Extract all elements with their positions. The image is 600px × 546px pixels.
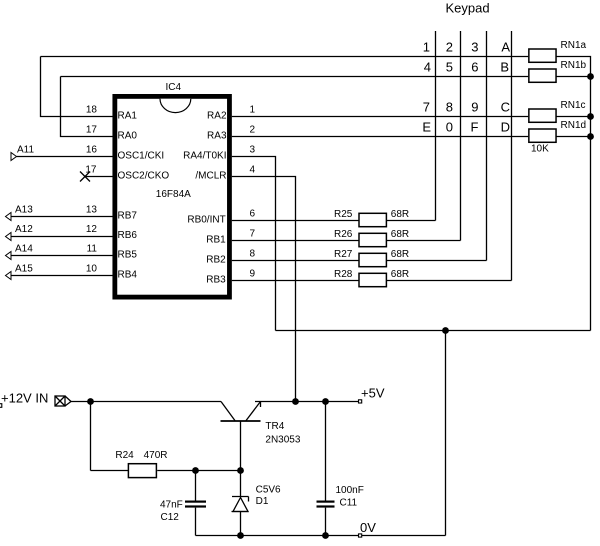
svg-text:RN1c: RN1c — [561, 100, 586, 111]
svg-text:D1: D1 — [256, 496, 269, 507]
svg-text:7: 7 — [423, 100, 430, 115]
svg-text:12: 12 — [86, 224, 98, 235]
svg-text:D: D — [501, 120, 510, 135]
svg-text:A14: A14 — [15, 244, 33, 255]
svg-text:RB7: RB7 — [118, 210, 138, 221]
svg-text:C: C — [501, 100, 510, 115]
svg-text:68R: 68R — [391, 269, 409, 280]
svg-text:68R: 68R — [391, 249, 409, 260]
svg-text:R26: R26 — [334, 229, 353, 240]
svg-text:A: A — [501, 40, 510, 55]
svg-text:RN1d: RN1d — [561, 120, 587, 131]
svg-text:5: 5 — [446, 60, 453, 75]
svg-text:A13: A13 — [15, 205, 33, 216]
svg-text:C11: C11 — [340, 498, 358, 509]
svg-text:4: 4 — [424, 60, 431, 75]
svg-text:RB6: RB6 — [118, 230, 138, 241]
svg-text:RN1a: RN1a — [561, 40, 587, 51]
svg-text:RB5: RB5 — [118, 249, 138, 260]
svg-text:2: 2 — [446, 40, 453, 55]
svg-text:+5V: +5V — [361, 386, 385, 401]
svg-text:16F84A: 16F84A — [156, 189, 191, 200]
svg-text:68R: 68R — [391, 209, 409, 220]
svg-text:RA0: RA0 — [118, 130, 138, 141]
svg-text:A12: A12 — [15, 224, 33, 235]
svg-text:6: 6 — [471, 60, 478, 75]
svg-text:TR4: TR4 — [265, 421, 284, 432]
svg-text:18: 18 — [86, 105, 98, 116]
svg-text:9: 9 — [471, 100, 478, 115]
svg-text:RN1b: RN1b — [561, 60, 587, 71]
svg-text:2: 2 — [250, 125, 256, 136]
svg-text:RB2: RB2 — [206, 255, 226, 266]
svg-text:C12: C12 — [161, 512, 180, 523]
svg-text:A15: A15 — [15, 264, 33, 275]
svg-text:0: 0 — [446, 120, 453, 135]
svg-text:B: B — [500, 60, 509, 75]
svg-text:RA3: RA3 — [207, 130, 227, 141]
svg-text:R25: R25 — [334, 209, 353, 220]
svg-text:E: E — [422, 120, 431, 135]
svg-text:C5V6: C5V6 — [256, 485, 281, 496]
svg-text:68R: 68R — [391, 229, 409, 240]
svg-text:16: 16 — [86, 145, 98, 156]
svg-text:1: 1 — [250, 105, 256, 116]
svg-text:R28: R28 — [334, 269, 353, 280]
svg-text:3: 3 — [250, 145, 256, 156]
svg-text:RA2: RA2 — [207, 110, 227, 121]
svg-text:1: 1 — [423, 40, 430, 55]
svg-text:4: 4 — [250, 165, 256, 176]
svg-text:47nF: 47nF — [160, 500, 183, 511]
svg-text:6: 6 — [250, 209, 256, 220]
svg-text:9: 9 — [250, 269, 256, 280]
svg-text:470R: 470R — [144, 450, 168, 461]
svg-text:0V: 0V — [360, 520, 376, 535]
svg-text:RB3: RB3 — [206, 275, 226, 286]
svg-text:IC4: IC4 — [166, 82, 182, 93]
svg-text:7: 7 — [250, 229, 256, 240]
svg-text:OSC2/CKO: OSC2/CKO — [118, 170, 170, 181]
svg-text:17: 17 — [85, 165, 97, 176]
svg-text:/MCLR: /MCLR — [195, 170, 226, 181]
svg-text:R24: R24 — [115, 450, 134, 461]
svg-text:13: 13 — [86, 205, 98, 216]
svg-text:10: 10 — [86, 264, 98, 275]
svg-text:OSC1/CKI: OSC1/CKI — [118, 150, 165, 161]
svg-text:RA4/T0KI: RA4/T0KI — [183, 150, 226, 161]
svg-text:+12V IN: +12V IN — [1, 390, 48, 405]
svg-text:RA1: RA1 — [118, 110, 138, 121]
svg-text:RB0/INT: RB0/INT — [187, 215, 225, 226]
svg-text:17: 17 — [86, 125, 98, 136]
svg-text:F: F — [471, 120, 479, 135]
svg-text:8: 8 — [250, 249, 256, 260]
svg-text:10K: 10K — [531, 144, 549, 155]
svg-text:3: 3 — [471, 40, 478, 55]
svg-text:Keypad: Keypad — [446, 1, 490, 16]
svg-text:A11: A11 — [17, 145, 34, 156]
svg-text:R27: R27 — [334, 249, 353, 260]
svg-text:2N3053: 2N3053 — [265, 434, 300, 445]
svg-text:RB4: RB4 — [118, 269, 138, 280]
svg-text:100nF: 100nF — [336, 485, 364, 496]
svg-text:11: 11 — [87, 244, 98, 255]
svg-text:8: 8 — [446, 100, 453, 115]
svg-text:RB1: RB1 — [206, 235, 226, 246]
